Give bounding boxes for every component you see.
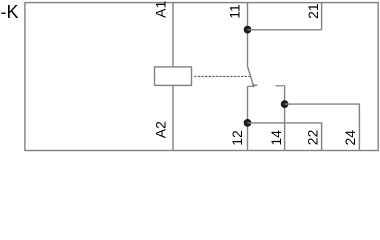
wire A1 bbox=[172, 3, 174, 67]
NO contact 14 serif bbox=[275, 85, 284, 87]
svg-text:11: 11 bbox=[227, 4, 243, 19]
svg-text:14: 14 bbox=[268, 130, 284, 146]
node junction 12-22 bbox=[244, 119, 251, 126]
svg-text:21: 21 bbox=[305, 3, 321, 19]
NC contact 12 serif bbox=[248, 85, 254, 87]
svg-text:A2: A2 bbox=[152, 121, 168, 138]
wire 12 to 22 bbox=[248, 123, 322, 151]
wire 11 to 21 bbox=[248, 29, 322, 31]
wire 12 bbox=[247, 86, 249, 150]
svg-text:24: 24 bbox=[342, 130, 358, 146]
wire A2 bbox=[172, 85, 174, 150]
wire 14 bbox=[284, 86, 286, 151]
svg-text:A1: A1 bbox=[152, 1, 168, 18]
node junction 11-21 bbox=[244, 26, 251, 33]
enclosure box bbox=[25, 3, 378, 151]
mechanical link (dashed) bbox=[194, 75, 250, 77]
blade tip tick bbox=[252, 84, 257, 86]
svg-text:22: 22 bbox=[304, 129, 320, 145]
wire 21 bbox=[321, 3, 323, 30]
svg-text:-K: -K bbox=[1, 2, 19, 22]
svg-text:12: 12 bbox=[229, 130, 245, 146]
wire 11 bbox=[247, 3, 249, 67]
wire 14 to 24 bbox=[285, 104, 360, 150]
relay coil K bbox=[155, 67, 192, 86]
switch blade (changeover contact) bbox=[248, 66, 255, 87]
node junction 14-24 bbox=[281, 101, 288, 108]
